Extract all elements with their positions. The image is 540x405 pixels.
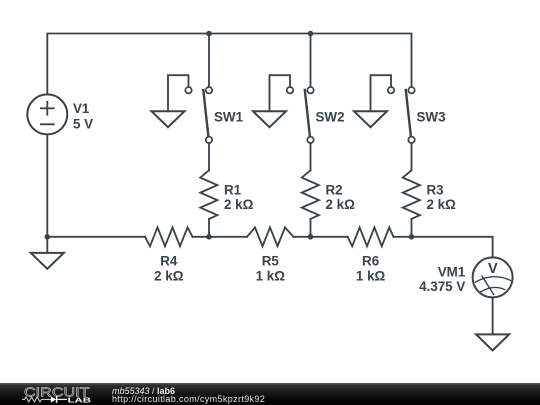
- svg-text:SW3: SW3: [417, 110, 446, 125]
- svg-text:R1: R1: [224, 182, 242, 197]
- wire SW1 to R1: [208, 143, 210, 170]
- ground (SW2 unused throw): [270, 75, 291, 111]
- resistor R6: [348, 227, 394, 246]
- switch SW3: [388, 87, 415, 143]
- svg-text:1 kΩ: 1 kΩ: [256, 268, 286, 283]
- wire node A segment: [193, 236, 248, 238]
- voltmeter VM1: [473, 257, 513, 297]
- wire SW2 to R2: [310, 143, 312, 170]
- svg-text:2 kΩ: 2 kΩ: [224, 197, 254, 212]
- ground (SW3 unused throw): [371, 75, 392, 111]
- resistor R3: [403, 170, 420, 219]
- resistor R1: [200, 170, 217, 219]
- wire R2 to bottom rail: [310, 219, 312, 237]
- switch SW1: [185, 87, 212, 143]
- svg-text:2 kΩ: 2 kΩ: [326, 197, 356, 212]
- ground (below VM1): [476, 334, 509, 350]
- node top rail / SW2: [308, 31, 314, 37]
- junction node dots: [45, 31, 415, 240]
- node C: [409, 234, 415, 240]
- svg-text:5 V: 5 V: [73, 116, 93, 131]
- svg-text:SW2: SW2: [316, 110, 345, 125]
- svg-text:R6: R6: [362, 254, 379, 269]
- node A: [206, 234, 212, 240]
- svg-text:2 kΩ: 2 kΩ: [154, 268, 184, 283]
- wire SW3 to R3: [411, 143, 413, 170]
- resistor R4: [145, 227, 193, 246]
- wire SW1 drop from rail: [208, 34, 210, 87]
- voltage source V1: [27, 94, 67, 134]
- node V1- / ground: [45, 234, 51, 240]
- wire node B segment: [294, 236, 348, 238]
- ground (main, below V1): [46, 237, 48, 253]
- svg-text:LAB: LAB: [68, 396, 91, 405]
- svg-text:SW1: SW1: [214, 110, 244, 125]
- svg-text:R5: R5: [262, 254, 280, 269]
- wire R1 to bottom rail: [208, 219, 210, 237]
- svg-text:R3: R3: [427, 182, 444, 197]
- resistor R2: [302, 170, 319, 219]
- wire VM1 to ground: [492, 297, 494, 334]
- svg-text:VM1: VM1: [438, 264, 466, 279]
- node top rail / SW1: [206, 31, 212, 37]
- svg-text:R4: R4: [160, 254, 178, 269]
- footer bar: [0, 383, 540, 405]
- wire V1 bottom to ground node: [46, 134, 48, 236]
- ground (SW1 unused throw): [168, 75, 189, 111]
- svg-text:2 kΩ: 2 kΩ: [427, 197, 457, 212]
- wire node C to voltmeter: [394, 237, 493, 258]
- CircuitLab logo: [22, 384, 91, 404]
- node B: [308, 234, 314, 240]
- wire top rail: [47, 34, 411, 95]
- svg-text:V1: V1: [73, 101, 90, 116]
- resistor R5: [247, 227, 294, 246]
- svg-text:V: V: [488, 261, 498, 277]
- svg-text:R2: R2: [326, 182, 343, 197]
- wire SW2 drop from rail: [310, 34, 312, 87]
- svg-text:1 kΩ: 1 kΩ: [356, 268, 386, 283]
- switch SW2: [287, 87, 314, 143]
- wire R3 to bottom rail: [411, 219, 413, 237]
- svg-text:4.375 V: 4.375 V: [419, 279, 465, 294]
- wire bottom rail left segment: [47, 236, 145, 238]
